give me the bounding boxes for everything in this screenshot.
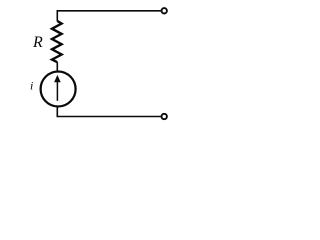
terminal a (top open circle) (162, 8, 167, 13)
terminal b (bottom open circle) (162, 114, 167, 119)
resistor R (52, 21, 62, 62)
current source arrow (points up) (56, 81, 58, 101)
wire bottom (current source bottom, down and right to terminal b) (57, 107, 161, 117)
wire top (from resistor top, up and right to terminal a) (57, 11, 161, 21)
current source I1 (circle) (41, 72, 76, 107)
svg-text:i: i (30, 79, 33, 93)
wire (resistor bottom to current source top) (56, 62, 58, 71)
svg-text:R: R (32, 34, 43, 51)
